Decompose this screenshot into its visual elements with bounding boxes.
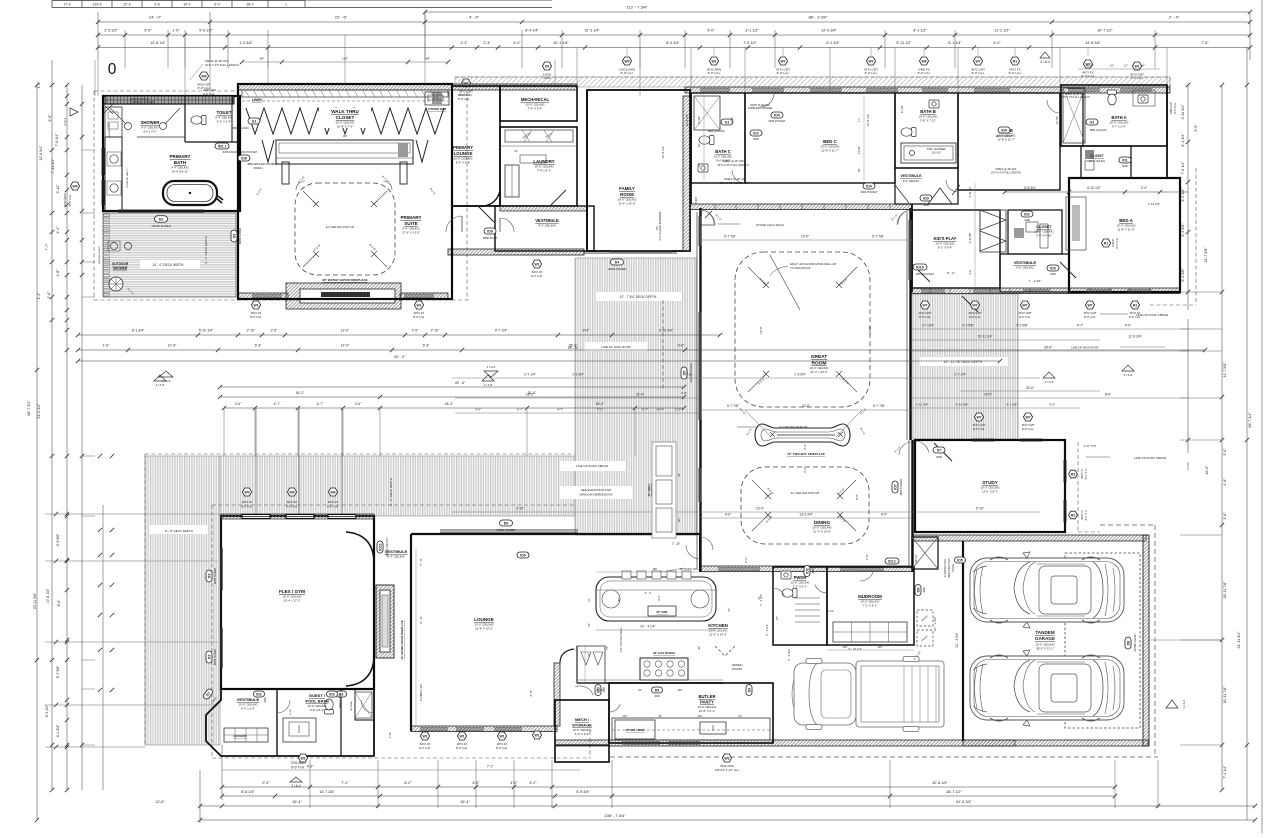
svg-text:8'-0" H.H.: 8'-0" H.H. xyxy=(203,92,215,96)
svg-text:8'-0" H.H.: 8'-0" H.H. xyxy=(456,746,468,750)
svg-text:185": 185" xyxy=(653,568,658,571)
svg-text:SHOWER: SHOWER xyxy=(351,701,353,711)
svg-text:5'-2 5/8": 5'-2 5/8" xyxy=(1016,324,1028,328)
svg-text:75": 75" xyxy=(588,653,591,657)
svg-text:22'-0" X 14'-3": 22'-0" X 14'-3" xyxy=(709,633,727,637)
svg-text:PRIMARY: PRIMARY xyxy=(400,215,421,220)
svg-text:CURBLESS SHOWER: CURBLESS SHOWER xyxy=(748,107,773,110)
svg-text:11'-8" X 11'-0": 11'-8" X 11'-0" xyxy=(1117,228,1134,232)
svg-text:8'-0" H.H.: 8'-0" H.H. xyxy=(250,315,262,319)
svg-text:8'-0" H.H.: 8'-0" H.H. xyxy=(68,194,72,206)
svg-text:TOILET: TOILET xyxy=(217,110,232,115)
svg-text:8'-2" X 8'-4": 8'-2" X 8'-4" xyxy=(938,246,953,250)
svg-text:60/114 POCKET: 60/114 POCKET xyxy=(386,537,389,556)
svg-text:G1: G1 xyxy=(1090,120,1095,124)
svg-text:BATH B: BATH B xyxy=(920,109,936,114)
svg-text:36": 36" xyxy=(658,715,662,718)
svg-text:ELEVATED DOG: ELEVATED DOG xyxy=(944,559,947,577)
section marker 4/A-4 xyxy=(1040,52,1050,58)
svg-text:2'-5": 2'-5" xyxy=(412,329,420,333)
slider D2 window band xyxy=(118,209,204,211)
svg-text:3296: 3296 xyxy=(753,137,759,141)
svg-text:3'-11 3/4": 3'-11 3/4" xyxy=(1181,104,1185,120)
svg-text:LINEN: LINEN xyxy=(252,98,262,102)
svg-text:BED C: BED C xyxy=(823,139,837,144)
coffee bar xyxy=(252,92,449,111)
corridor vestibule B doors xyxy=(895,174,960,207)
svg-text:3'-11": 3'-11" xyxy=(56,184,60,194)
svg-text:31'-4": 31'-4" xyxy=(528,391,537,395)
svg-text:WINDOW DIMENSIONS: WINDOW DIMENSIONS xyxy=(580,493,613,497)
svg-text:1'-4": 1'-4" xyxy=(37,81,41,89)
svg-text:ID4: ID4 xyxy=(1001,128,1007,132)
svg-text:7'-4 1/4": 7'-4 1/4" xyxy=(1223,765,1227,779)
trash boxes xyxy=(917,610,933,646)
svg-text:5'-10 5/8": 5'-10 5/8" xyxy=(956,403,969,407)
svg-text:ID4: ID4 xyxy=(866,184,872,188)
svg-text:96/96 SLIDER: 96/96 SLIDER xyxy=(238,228,242,245)
svg-text:9'-6" CEILING: 9'-6" CEILING xyxy=(903,179,919,183)
svg-text:48/U0 POCKET: 48/U0 POCKET xyxy=(916,272,935,276)
svg-text:W7: W7 xyxy=(868,59,873,63)
svg-text:3296: 3296 xyxy=(812,568,815,574)
svg-text:2'-0": 2'-0" xyxy=(681,391,687,395)
svg-text:2' - 4": 2' - 4" xyxy=(1169,15,1180,20)
svg-text:7'-1": 7'-1" xyxy=(341,781,349,785)
svg-text:6'-3 3/4": 6'-3 3/4" xyxy=(419,691,423,701)
svg-text:21'-11 3/4": 21'-11 3/4" xyxy=(1237,631,1241,649)
svg-text:5'-7 7/8": 5'-7 7/8" xyxy=(873,404,885,408)
tub xyxy=(163,181,223,205)
svg-text:10'-0": 10'-0" xyxy=(801,235,809,239)
svg-text:5'-7 7/8": 5'-7 7/8" xyxy=(724,235,736,239)
svg-text:W1: W1 xyxy=(1134,64,1139,68)
svg-text:R1: R1 xyxy=(1133,303,1137,307)
svg-text:8'-0" H.H.: 8'-0" H.H. xyxy=(496,746,508,750)
svg-text:D2: D2 xyxy=(159,217,164,221)
svg-text:6'-7 3/8": 6'-7 3/8" xyxy=(56,665,60,678)
svg-text:16"H X 4"D FULL LENGTH: 16"H X 4"D FULL LENGTH xyxy=(717,163,748,167)
svg-text:14'-0" 8 8'-11": 14'-0" 8 8'-11" xyxy=(171,170,188,174)
svg-text:4'-0": 4'-0" xyxy=(513,41,521,45)
svg-text:PRIMARY: PRIMARY xyxy=(453,145,473,150)
svg-text:24": 24" xyxy=(514,150,518,153)
svg-text:4'-9 5/8": 4'-9 5/8" xyxy=(56,533,60,546)
svg-text:1'-10": 1'-10" xyxy=(388,732,392,739)
svg-text:12'-6": 12'-6" xyxy=(155,800,165,804)
svg-text:48": 48" xyxy=(260,57,264,61)
bed A upper dim row xyxy=(991,168,1188,206)
closet shelf dims xyxy=(240,57,450,139)
svg-text:5'-0: 5'-0 xyxy=(214,3,219,7)
walls: great room xyxy=(697,208,913,572)
svg-text:CLOSET: CLOSET xyxy=(336,115,355,120)
svg-text:3'-1 1/2": 3'-1 1/2" xyxy=(745,29,759,33)
svg-text:8'-6": 8'-6" xyxy=(1105,393,1111,397)
svg-text:8'-4 1/4": 8'-4 1/4" xyxy=(525,29,539,33)
svg-text:61'-5 3/4": 61'-5 3/4" xyxy=(956,800,972,804)
svg-text:96/96 SLIDER: 96/96 SLIDER xyxy=(213,568,217,585)
svg-text:8'-0" H.H.: 8'-0" H.H. xyxy=(1019,315,1031,319)
svg-text:185": 185" xyxy=(618,597,621,602)
svg-text:31 1/2": 31 1/2" xyxy=(1055,116,1059,124)
svg-text:9' - 0": 9' - 0" xyxy=(645,591,652,595)
fixtures: primary bath xyxy=(103,104,206,195)
svg-text:1 / A-5: 1 / A-5 xyxy=(487,365,496,369)
svg-text:7' - 4 3/4": 7' - 4 3/4" xyxy=(759,594,763,606)
svg-text:16'-2": 16'-2" xyxy=(296,391,305,395)
svg-text:48" GAS RANGE: 48" GAS RANGE xyxy=(653,651,675,655)
svg-text:SHOWER: SHOWER xyxy=(141,120,160,125)
car 2 xyxy=(970,650,1124,726)
svg-text:17'-8 1/4": 17'-8 1/4" xyxy=(46,588,50,603)
svg-text:48": 48" xyxy=(426,57,430,61)
walls: primary bath block xyxy=(103,96,240,211)
svg-text:3206 FRAMELESS POCKET: 3206 FRAMELESS POCKET xyxy=(223,150,258,154)
svg-text:21' - 1 3/4": 21' - 1 3/4" xyxy=(933,617,937,631)
closet shelves + hangers xyxy=(242,90,448,184)
bedroom wing small dims xyxy=(694,96,1059,203)
svg-text:8'-0" H.H.: 8'-0" H.H. xyxy=(241,505,253,509)
svg-text:8' - 0" DECK DEPTH: 8' - 0" DECK DEPTH xyxy=(165,529,193,533)
svg-text:ID2: ID2 xyxy=(329,692,335,696)
walls: study xyxy=(915,440,1065,532)
svg-text:8'-0" H.H.: 8'-0" H.H. xyxy=(1085,509,1088,520)
walls: garage xyxy=(963,535,1149,746)
svg-text:2'-10": 2'-10" xyxy=(431,329,440,333)
study door D7 xyxy=(933,443,952,461)
svg-text:5'-1 5/8": 5'-1 5/8" xyxy=(1007,403,1018,407)
svg-text:5 3/4": 5 3/4" xyxy=(694,197,698,204)
svg-text:1 / A-5: 1 / A-5 xyxy=(484,383,493,387)
svg-text:8'-0" H.H.: 8'-0" H.H. xyxy=(708,71,721,75)
gray hatch note xyxy=(770,262,836,276)
svg-text:8'-0" H.H.: 8'-0" H.H. xyxy=(1085,468,1088,479)
svg-text:8'-0" H.H.: 8'-0" H.H. xyxy=(1115,237,1119,248)
svg-text:BED A: BED A xyxy=(1119,218,1133,223)
svg-text:GUEST /: GUEST / xyxy=(309,693,326,698)
svg-text:1'-6": 1'-6" xyxy=(103,344,111,348)
ceiling dashed: great room xyxy=(735,252,870,407)
deck hatch: left outdoor-shower deck xyxy=(103,213,236,297)
title table xyxy=(52,1,552,8)
svg-text:3'-6": 3'-6" xyxy=(678,344,686,348)
svg-text:SWING: SWING xyxy=(253,166,262,170)
svg-text:10'-0": 10'-0" xyxy=(756,507,764,511)
svg-text:3296 POCKET: 3296 POCKET xyxy=(768,119,786,123)
svg-text:W2: W2 xyxy=(300,756,305,760)
walls: bedroom wing top (baths/beds) xyxy=(691,85,1180,292)
svg-text:4 / A-5: 4 / A-5 xyxy=(156,383,165,387)
svg-text:6'-1 1/2": 6'-1 1/2" xyxy=(913,29,927,33)
svg-text:G1: G1 xyxy=(725,120,730,124)
svg-text:ID9: ID9 xyxy=(487,229,493,233)
svg-text:12' CEILING POP UP: 12' CEILING POP UP xyxy=(791,491,820,495)
svg-text:BATH A: BATH A xyxy=(1111,115,1126,120)
svg-text:36": 36" xyxy=(678,473,681,477)
svg-text:D9: D9 xyxy=(545,64,549,68)
svg-text:2'-5 1/2": 2'-5 1/2" xyxy=(104,29,118,33)
great room extra leaders xyxy=(739,407,868,437)
svg-text:9'-4" CEILING: 9'-4" CEILING xyxy=(387,555,405,559)
svg-text:7'-4" x 8'-1": 7'-4" x 8'-1" xyxy=(537,169,551,173)
svg-text:9'-3": 9'-3" xyxy=(262,781,270,785)
guest bath fixtures xyxy=(283,692,372,742)
svg-text:2'-7 1/4": 2'-7 1/4" xyxy=(954,373,966,377)
svg-text:FLOATING VANITY: FLOATING VANITY xyxy=(126,168,129,188)
svg-text:8'-0" H.H.: 8'-0" H.H. xyxy=(1009,71,1022,75)
stone half arch note xyxy=(705,211,784,227)
svg-text:5'-0": 5'-0" xyxy=(707,29,715,33)
svg-text:18": 18" xyxy=(588,623,591,627)
svg-text:2'-6": 2'-6" xyxy=(865,554,869,560)
svg-text:25'-6": 25'-6" xyxy=(569,344,578,348)
mech storage xyxy=(555,700,609,762)
svg-text:1'-2 3/4": 1'-2 3/4" xyxy=(572,373,584,377)
svg-text:12'-6 3/4": 12'-6 3/4" xyxy=(1128,335,1141,339)
svg-text:W9: W9 xyxy=(330,490,335,494)
svg-text:46" WATER VAPOR FIREPLACE: 46" WATER VAPOR FIREPLACE xyxy=(400,620,404,659)
svg-text:1'-11 1/2": 1'-11 1/2" xyxy=(1148,202,1160,206)
svg-text:4 / A-5: 4 / A-5 xyxy=(162,379,171,383)
svg-text:W6: W6 xyxy=(201,74,206,78)
svg-text:24": 24" xyxy=(638,689,642,692)
svg-text:49' - 6": 49' - 6" xyxy=(455,381,466,385)
outdoor shower xyxy=(108,241,135,296)
svg-text:WASH/PATH DEN: WASH/PATH DEN xyxy=(948,558,951,578)
svg-text:ID8: ID8 xyxy=(241,156,247,160)
svg-text:3672 FX: 3672 FX xyxy=(328,500,339,504)
svg-text:FAMILY: FAMILY xyxy=(619,186,635,191)
radius notes suite xyxy=(255,175,436,196)
svg-text:3672 FX: 3672 FX xyxy=(287,500,298,504)
svg-text:8'-4" X 9'-8": 8'-4" X 9'-8" xyxy=(456,161,471,165)
svg-text:W9: W9 xyxy=(244,490,249,494)
svg-text:9'-5": 9'-5" xyxy=(1194,124,1198,132)
svg-text:46": 46" xyxy=(655,226,659,230)
svg-text:ID10: ID10 xyxy=(916,265,924,269)
svg-text:41 3/4": 41 3/4" xyxy=(697,116,701,124)
svg-text:SHELF @ 48" AFF: SHELF @ 48" AFF xyxy=(722,159,744,163)
svg-text:12'-7 3/8": 12'-7 3/8" xyxy=(1204,247,1208,263)
svg-text:3496: 3496 xyxy=(1024,218,1030,222)
svg-text:W1: W1 xyxy=(711,59,716,63)
svg-text:16'-8": 16'-8" xyxy=(868,326,872,334)
svg-text:60" GRILL: 60" GRILL xyxy=(647,483,651,496)
svg-text:2'-6": 2'-6" xyxy=(744,557,748,563)
svg-text:1'-6": 1'-6" xyxy=(47,291,51,299)
svg-text:STONE HALF ARCH: STONE HALF ARCH xyxy=(756,223,784,227)
closet B shelves xyxy=(1014,222,1048,248)
svg-text:LINE OF ROOF ABOVE: LINE OF ROOF ABOVE xyxy=(1134,456,1166,460)
svg-text:120/32: 120/32 xyxy=(1111,238,1115,246)
pwdr small dims xyxy=(759,594,862,661)
svg-text:5'-9 3/4": 5'-9 3/4" xyxy=(576,790,590,794)
svg-text:6'-10 1/2": 6'-10 1/2" xyxy=(1087,186,1100,190)
svg-text:10'-7 1/2": 10'-7 1/2" xyxy=(1097,29,1113,33)
svg-text:12'-3 1/4": 12'-3 1/4" xyxy=(584,29,600,33)
svg-text:41 3/4": 41 3/4" xyxy=(1086,65,1094,68)
hidden doors xyxy=(715,646,742,671)
svg-text:SEE ELEVATION FOR: SEE ELEVATION FOR xyxy=(581,488,612,492)
svg-text:7'-9 3/4": 7'-9 3/4" xyxy=(55,133,59,147)
svg-text:5'-0": 5'-0" xyxy=(144,29,152,33)
svg-text:COFFEE BAR: COFFEE BAR xyxy=(428,107,446,111)
svg-text:66" SINK: 66" SINK xyxy=(656,610,667,614)
svg-text:10' - 11 7/8" DECK DEPTH: 10' - 11 7/8" DECK DEPTH xyxy=(944,360,983,364)
svg-text:MECHANICAL: MECHANICAL xyxy=(521,97,550,102)
top dimension lines xyxy=(96,5,1252,68)
svg-text:4'-0": 4'-0" xyxy=(881,513,887,517)
wooden slats strip xyxy=(98,214,110,296)
svg-text:192/120 SLIDER: 192/120 SLIDER xyxy=(689,363,693,383)
corridor spine ticks xyxy=(715,204,1150,293)
svg-text:D5: D5 xyxy=(682,371,686,376)
svg-text:3286: 3286 xyxy=(264,697,267,703)
svg-text:LINE OF HIGH ROOF: LINE OF HIGH ROOF xyxy=(601,345,631,349)
svg-text:44": 44" xyxy=(588,598,591,602)
svg-text:LOUNGE: LOUNGE xyxy=(454,151,473,156)
svg-text:5'-10 1/4": 5'-10 1/4" xyxy=(199,329,214,333)
svg-text:CLOSET: CLOSET xyxy=(1036,225,1052,229)
svg-text:VESTIBULE: VESTIBULE xyxy=(237,697,260,702)
svg-text:8'-0": 8'-0" xyxy=(855,494,859,500)
svg-text:ID11: ID11 xyxy=(378,543,382,550)
bath A mini dims xyxy=(1078,65,1160,70)
left dimension lines xyxy=(27,60,220,822)
svg-text:LINE OF ROOF ABOVE: LINE OF ROOF ABOVE xyxy=(576,464,608,468)
svg-text:1'-0": 1'-0" xyxy=(172,29,180,33)
svg-text:24": 24" xyxy=(728,608,731,612)
wall band: primary suite bottom xyxy=(238,293,288,299)
svg-text:4'-2": 4'-2" xyxy=(529,781,537,785)
svg-text:62 1/4": 62 1/4" xyxy=(596,689,604,692)
truck xyxy=(792,657,944,732)
svg-text:28896 SLIDER: 28896 SLIDER xyxy=(497,528,516,532)
svg-text:2884 (GLASS): 2884 (GLASS) xyxy=(231,126,249,130)
outdoor kitchen grill xyxy=(647,442,681,538)
svg-text:W7: W7 xyxy=(972,303,977,307)
svg-text:13'-0" X 8'-7": 13'-0" X 8'-7" xyxy=(982,490,998,494)
svg-text:3'-4" X 4'-10": 3'-4" X 4'-10" xyxy=(1036,234,1052,238)
svg-text:108' - 7 3/4": 108' - 7 3/4" xyxy=(604,813,626,818)
svg-text:4'-0": 4'-0" xyxy=(1125,324,1131,328)
svg-text:BATH: BATH xyxy=(174,160,187,165)
plan tags xyxy=(151,112,1141,772)
svg-text:W7: W7 xyxy=(1022,303,1027,307)
svg-text:24": 24" xyxy=(738,715,742,718)
svg-text:8' - 8": 8' - 8" xyxy=(419,616,423,624)
flex curved wall xyxy=(346,532,374,560)
svg-text:D4: D4 xyxy=(615,260,620,264)
svg-text:5'-10": 5'-10" xyxy=(976,507,984,511)
great room pop-up note xyxy=(737,425,807,429)
guide lines xyxy=(82,12,1222,745)
svg-text:1'-3 3/4": 1'-3 3/4" xyxy=(239,41,253,45)
svg-text:PANTY: PANTY xyxy=(700,700,714,705)
svg-text:8'-0" H.H.: 8'-0" H.H. xyxy=(919,315,931,319)
svg-text:4884 ARCHED DOUBLE: 4884 ARCHED DOUBLE xyxy=(247,162,277,166)
svg-text:68'-7 3/4": 68'-7 3/4" xyxy=(27,400,31,416)
svg-text:D6: D6 xyxy=(504,521,509,525)
bed A wardrobe xyxy=(1066,197,1086,250)
svg-text:LOCKERS: LOCKERS xyxy=(234,734,247,738)
svg-text:1'-0" TYP: 1'-0" TYP xyxy=(1084,444,1097,448)
notes xyxy=(130,59,1090,185)
svg-text:R1: R1 xyxy=(1013,59,1017,63)
svg-text:5'-0" X 3'-4": 5'-0" X 3'-4" xyxy=(217,120,232,124)
svg-text:11'-8 3/4": 11'-8 3/4" xyxy=(39,145,43,161)
svg-text:ID2: ID2 xyxy=(753,131,759,135)
svg-text:LOUNGE: LOUNGE xyxy=(474,617,494,622)
svg-text:16'-4" X 13'-3": 16'-4" X 13'-3" xyxy=(475,627,493,631)
svg-text:8432 AWN: 8432 AWN xyxy=(63,193,67,206)
svg-text:ID9: ID9 xyxy=(520,553,526,557)
svg-text:G1: G1 xyxy=(252,119,257,123)
svg-text:9'-8" 3.5'-4": 9'-8" 3.5'-4" xyxy=(310,708,324,712)
svg-text:139 3/4" 4'-10" H.H.: 139 3/4" 4'-10" H.H. xyxy=(715,768,740,772)
svg-text:8' - 2": 8' - 2" xyxy=(947,271,955,275)
svg-text:6'-3 5/8": 6'-3 5/8" xyxy=(1181,223,1185,237)
svg-text:SHOWER SEAT: SHOWER SEAT xyxy=(108,122,111,137)
svg-text:164": 164" xyxy=(342,57,348,61)
svg-text:96" WATER VAPOR FIREPLACE: 96" WATER VAPOR FIREPLACE xyxy=(322,278,367,282)
svg-text:5'-2 5/8": 5'-2 5/8" xyxy=(962,324,974,328)
svg-text:10'-1 1/4": 10'-1 1/4" xyxy=(553,41,569,45)
svg-text:GREAT: GREAT xyxy=(811,354,828,360)
svg-text:R1: R1 xyxy=(1104,241,1108,245)
svg-text:12'-8 1/4": 12'-8 1/4" xyxy=(150,41,166,45)
svg-text:38'-7 1/2": 38'-7 1/2" xyxy=(946,790,962,794)
svg-text:8'-0" H.H.: 8'-0" H.H. xyxy=(286,505,298,509)
deck hatch: big lower-left deck column xyxy=(145,456,220,745)
deck hatch: band above flex/gym xyxy=(220,456,575,516)
svg-text:21'-2 3/4": 21'-2 3/4" xyxy=(37,403,41,419)
walls: primary lounge / mech / laundry / vestibule xyxy=(452,86,594,251)
svg-text:3 / A-4: 3 / A-4 xyxy=(63,118,67,127)
svg-text:3'-10 3/4": 3'-10 3/4" xyxy=(968,186,972,197)
svg-text:D9: D9 xyxy=(747,688,751,693)
svg-text:14' - 0" DECK WIDTH: 14' - 0" DECK WIDTH xyxy=(153,263,185,267)
svg-text:MECH /: MECH / xyxy=(575,717,590,722)
svg-text:14' - 0": 14' - 0" xyxy=(149,15,162,20)
svg-text:3678 FX: 3678 FX xyxy=(1081,510,1084,520)
svg-text:1: 1 xyxy=(285,3,287,7)
svg-text:3'-8": 3'-8" xyxy=(48,114,52,122)
svg-text:9"-0": 9"-0" xyxy=(658,595,661,600)
svg-text:62' - 0": 62' - 0" xyxy=(394,355,406,359)
svg-text:W7: W7 xyxy=(1025,415,1030,419)
svg-text:CLOSET: CLOSET xyxy=(1090,154,1105,158)
svg-text:STORAGE: STORAGE xyxy=(572,723,592,728)
svg-text:2 / A-5: 2 / A-5 xyxy=(1045,380,1054,384)
svg-text:4'-6": 4'-6" xyxy=(1223,478,1227,486)
svg-text:W1: W1 xyxy=(534,733,539,737)
dog wash xyxy=(912,537,955,578)
svg-text:KITCHEN: KITCHEN xyxy=(708,623,728,628)
svg-text:R2: R2 xyxy=(1071,472,1075,476)
svg-text:8'-0" H.H.: 8'-0" H.H. xyxy=(973,427,985,431)
fireplace: primary suite xyxy=(286,278,401,309)
wall band: lounge bottom xyxy=(411,726,557,732)
svg-text:3'-2": 3'-2" xyxy=(803,467,807,473)
svg-text:31'-4": 31'-4" xyxy=(636,393,644,397)
svg-text:24'-6": 24'-6" xyxy=(1026,386,1034,390)
svg-text:4'-0": 4'-0" xyxy=(725,513,731,517)
svg-text:9'-1 3/4": 9'-1 3/4" xyxy=(826,41,840,45)
vestibule A door xyxy=(912,262,1076,283)
wall band: family room bottom xyxy=(448,249,584,255)
